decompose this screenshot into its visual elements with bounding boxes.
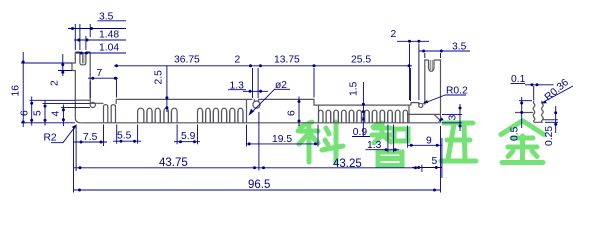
watermark 科 <box>298 122 343 162</box>
dim 1.48 <box>74 30 126 42</box>
svg-text:2: 2 <box>391 29 397 40</box>
watermark 智 <box>372 123 408 166</box>
ext lines tower top <box>75 24 90 50</box>
svg-text:36.75: 36.75 <box>174 55 200 66</box>
dim 43.75 / 43.25 <box>74 112 419 171</box>
svg-text:5.9: 5.9 <box>181 131 196 142</box>
svg-text:9: 9 <box>426 136 432 147</box>
dim 3 right rotated <box>438 104 462 131</box>
dim 7 <box>88 68 118 98</box>
svg-text:3.5: 3.5 <box>452 42 467 53</box>
dim R0.2 leader <box>423 86 469 104</box>
dim 0.1 <box>511 74 554 100</box>
dim 2 lip <box>50 54 73 86</box>
screw hole circle <box>253 101 260 108</box>
right tower <box>425 60 441 114</box>
svg-text:3: 3 <box>448 115 459 121</box>
dim 5.5 <box>113 125 141 144</box>
right bump and fillet <box>411 103 419 106</box>
svg-text:7.5: 7.5 <box>83 132 98 143</box>
dim 3.5 top-left <box>68 12 126 31</box>
svg-text:43.75: 43.75 <box>159 157 188 169</box>
profile: main top surface <box>116 98 252 100</box>
svg-text:1.04: 1.04 <box>99 43 119 54</box>
svg-text:96.5: 96.5 <box>248 179 270 191</box>
svg-text:0.5: 0.5 <box>510 126 521 141</box>
svg-text:13.75: 13.75 <box>274 55 300 66</box>
dim 7.5 <box>73 125 107 172</box>
svg-text:2.5: 2.5 <box>154 70 165 85</box>
watermark 五 <box>441 123 476 161</box>
dim 5 bottom right <box>412 156 442 172</box>
svg-text:5: 5 <box>432 156 438 167</box>
svg-text:2: 2 <box>50 80 61 86</box>
dim 1.5 rotated <box>349 81 365 116</box>
dim 0.25 rotated <box>544 106 558 146</box>
svg-text:6: 6 <box>287 110 298 116</box>
fin block B <box>198 99 247 122</box>
dim 0.5 rotated <box>510 97 533 141</box>
dim Ø2 leader <box>249 80 291 116</box>
dim 3.5 top right <box>419 42 470 59</box>
small slot pair <box>104 105 116 123</box>
svg-text:1.48: 1.48 <box>99 30 119 41</box>
watermark 金 <box>501 121 544 163</box>
fin block A <box>138 108 178 123</box>
dim R2 leader <box>44 124 78 143</box>
svg-text:7: 7 <box>97 68 103 79</box>
dim 19.5 <box>246 125 318 147</box>
svg-text:5.5: 5.5 <box>117 131 132 142</box>
svg-text:25.5: 25.5 <box>351 55 371 66</box>
profile: left lip and tower <box>72 52 90 118</box>
dim 0.9 leader <box>352 115 370 138</box>
dim 5.9 <box>174 125 200 145</box>
svg-text:4: 4 <box>51 111 62 117</box>
svg-text:43.25: 43.25 <box>333 158 362 170</box>
dim 5 rotated <box>33 101 91 126</box>
profile: base surface next to tower <box>75 99 90 101</box>
svg-text:19.5: 19.5 <box>272 134 292 145</box>
screw slot <box>254 99 258 101</box>
dim 2 top right <box>391 29 430 100</box>
dim R0.36 leader <box>541 77 573 103</box>
top surface after slot, step at 314 <box>258 99 411 105</box>
fin block D <box>319 105 410 123</box>
right end groove <box>407 114 441 122</box>
dim 1.04 <box>76 43 126 55</box>
dim 25.5 <box>314 55 412 102</box>
dim 96.5 <box>74 126 441 193</box>
dim 4 rotated <box>51 105 91 127</box>
hole circle left <box>90 102 95 107</box>
svg-text:6: 6 <box>20 110 31 116</box>
dim 6 left rotated <box>20 97 76 126</box>
dim 16 <box>11 52 76 127</box>
detail: serrated rib <box>515 101 558 123</box>
dim 1.3 slot <box>228 80 268 93</box>
profile: shelf with hole <box>90 99 116 103</box>
svg-text:R2: R2 <box>44 132 57 143</box>
dim 9 <box>408 126 442 179</box>
svg-text:0.25: 0.25 <box>544 126 555 146</box>
svg-text:5: 5 <box>33 110 44 116</box>
dim chain 36.75 / 2 / 13.75 <box>114 55 316 99</box>
dim 6 mid rotated <box>287 97 301 127</box>
svg-text:2: 2 <box>235 55 241 66</box>
profile: R2 corner into bottom edge <box>75 118 80 123</box>
dim 2.5 rotated <box>154 66 169 112</box>
svg-text:16: 16 <box>11 85 22 97</box>
svg-text:1.5: 1.5 <box>349 81 360 96</box>
dim 1.3 right <box>366 125 400 153</box>
profile: bottom edge <box>80 122 440 124</box>
